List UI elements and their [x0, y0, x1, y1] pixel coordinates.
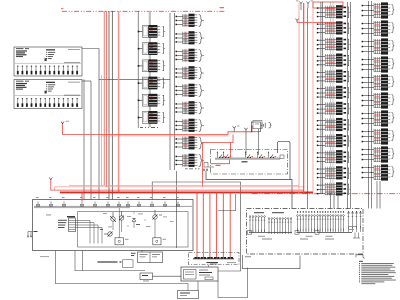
connector strip enclosure [189, 253, 240, 265]
driver module C6 [317, 86, 351, 99]
connector module box X2 [14, 80, 82, 109]
red feeder label [61, 7, 63, 10]
M1 feed [141, 251, 143, 253]
plug P2 [201, 257, 206, 258]
column B feeder bus 1 [169, 13, 171, 170]
column A feeder bus [137, 11, 139, 128]
relay module A1 [138, 25, 166, 38]
antenna T5 [61, 121, 69, 124]
lamp bus 2 [295, 231, 316, 237]
column A gray highlighted net [149, 11, 151, 127]
column B feeder bus 2 [174, 13, 176, 170]
M1 annotation [131, 253, 136, 256]
red riser right 1 [298, 3, 300, 194]
dark riser right b [312, 8, 314, 192]
driver module C1 [317, 5, 351, 18]
lamp group enclosure (dash-dot) [247, 209, 364, 255]
red drop 5 [222, 192, 224, 257]
lamp group G4 [317, 211, 345, 232]
connector module box X1 [14, 47, 82, 76]
column C feeder bus 1 [320, 2, 322, 194]
relay K1 box [251, 121, 262, 156]
red drop 6 [229, 192, 231, 257]
wire y283 [56, 251, 189, 291]
red riser 1 [103, 11, 105, 185]
red dash-dot feeder line [62, 10, 226, 12]
bus switch S2 [223, 152, 231, 159]
wire R1 to U4 [153, 275, 182, 277]
red dash-dot trunk right [252, 193, 400, 195]
column C tails [331, 181, 381, 209]
relay module A2 [138, 42, 166, 55]
wire y182 [152, 182, 240, 271]
driver module C2 [317, 21, 351, 34]
dark riser right a [306, 8, 308, 209]
fuse F6 [106, 201, 109, 206]
G4 tail [353, 233, 360, 239]
driver module D1 [362, 2, 394, 18]
relay box R1 [140, 273, 153, 281]
extra bus tap box [280, 155, 284, 158]
plug P5 [221, 257, 226, 258]
IC module B4 [176, 66, 204, 79]
IC module B1 [176, 14, 204, 27]
net stub x176.5 [176, 171, 178, 248]
U4 label [210, 264, 217, 265]
wire labels above box [36, 196, 179, 199]
IC module B5 [176, 84, 204, 97]
column B bottom continuation [185, 168, 208, 171]
bus switch S3 [245, 152, 253, 159]
driver module C9 [317, 134, 351, 147]
wire U4 down [197, 281, 199, 291]
terminal block TB [67, 216, 76, 232]
box top feed wire [34, 205, 192, 207]
X1 title text [16, 48, 29, 57]
driver module C3 [317, 37, 351, 50]
lamp group G1 [249, 216, 265, 232]
IC module B6 [176, 101, 204, 114]
group top labels [254, 212, 284, 213]
driver module D6 [362, 92, 394, 108]
antenna T8 [49, 178, 52, 181]
inter-column trunks [348, 2, 351, 209]
lamp group G3 [297, 211, 316, 232]
misc net dots [100, 213, 146, 230]
red net from T5 [63, 124, 252, 135]
plug P1 [194, 257, 199, 258]
wire chain left [75, 251, 145, 271]
wire from box X2 [82, 80, 91, 82]
module label [216, 165, 221, 166]
red drop 3 [209, 192, 211, 257]
inner partition box [78, 212, 189, 247]
formula text [98, 261, 122, 262]
IC module B7 [176, 119, 204, 132]
G4 sub-label [348, 226, 356, 230]
red trunk 4 (heavy) [60, 191, 313, 193]
driver module C12 [317, 182, 351, 195]
relay module A4 [138, 77, 166, 90]
red riser 2 [106, 11, 108, 187]
red trunk 3 [51, 180, 304, 190]
driver U3 [153, 238, 166, 245]
antenna T2 [306, 1, 313, 9]
driver module C7 [317, 102, 351, 115]
driver module D3 [362, 38, 394, 54]
fuse F8 [126, 201, 129, 206]
wire stub down from X1 junction [98, 79, 100, 199]
dark riser [111, 11, 113, 200]
red branch h [297, 22, 343, 24]
X1 pin row [15, 63, 81, 74]
wire down from X2 [90, 81, 92, 200]
transistor Q3 [153, 210, 163, 220]
plug P4 [214, 257, 219, 258]
red net label [220, 7, 225, 8]
fuse F9 [137, 201, 140, 206]
red distribution box [313, 2, 343, 8]
module inner wiring [204, 163, 214, 168]
X2 pin row [15, 96, 81, 107]
transistor Q4 [104, 232, 113, 237]
wire module to bottom-right box [206, 171, 292, 209]
antenna T6 [233, 126, 240, 132]
group captions [262, 239, 334, 240]
diode D1 [132, 218, 136, 221]
module enclosure (dash-dot) [211, 150, 288, 175]
driver module D9 [362, 146, 394, 162]
net stub x152 [151, 182, 153, 200]
red riser 5 [101, 75, 103, 185]
wire from box X1 to bus [82, 49, 170, 80]
ECU main box [33, 200, 194, 251]
transistor Q2 [119, 211, 124, 221]
driver module C11 [317, 166, 351, 179]
control unit U4 [181, 267, 218, 281]
fuse F7 [117, 201, 120, 206]
plug P6 [228, 257, 233, 258]
plug P3 [207, 257, 212, 258]
bottom box M2 [178, 291, 199, 299]
bus switch S5 [268, 152, 276, 159]
inner verticals [113, 208, 155, 238]
column A continuation marks [140, 126, 158, 129]
fuse F12 [176, 201, 179, 206]
driver module D4 [362, 56, 394, 72]
fuse F5 [93, 201, 96, 206]
red drop 4 [216, 192, 218, 257]
fuse F2 [49, 201, 52, 206]
TB wiring harness [76, 220, 103, 243]
red drop 2 [202, 192, 204, 257]
red box tail [312, 2, 314, 8]
transistor Q1 [110, 212, 116, 222]
driver U2 [115, 238, 129, 245]
column D feeder bus 1 [368, 1, 370, 209]
strip lead down [208, 265, 210, 268]
IC module B2 [176, 31, 204, 44]
note tag box [356, 255, 365, 259]
fuse F4 [80, 201, 83, 206]
lamp group G2 [268, 218, 292, 234]
red trunk 2 [55, 187, 304, 190]
column C feeder bus 2 [322, 2, 324, 194]
L-wire right [218, 268, 248, 298]
notes legend [359, 261, 396, 284]
IC module B3 [176, 49, 204, 62]
feed corner wire [218, 194, 236, 211]
driver module D5 [362, 74, 394, 90]
module internal bus bar [215, 158, 280, 160]
driver module D7 [362, 110, 394, 126]
relay module A6 [138, 111, 166, 124]
ground label [34, 231, 38, 232]
connector strip bar [193, 258, 234, 260]
red riser 3 [108, 11, 110, 200]
sub enclosure label [245, 256, 251, 257]
box top feed wire 2 [34, 207, 130, 209]
X1 legend [45, 49, 81, 63]
antenna T3 + red branch [295, 19, 298, 23]
red horizontal second [102, 135, 229, 137]
IC module B9 [176, 154, 204, 167]
wire down at x84 [83, 79, 85, 199]
red riser 4 [118, 11, 120, 192]
red drop 1 [196, 192, 198, 257]
IC module B8 [176, 136, 204, 149]
driver module C10 [317, 150, 351, 163]
strip caption [207, 262, 237, 263]
driver module D2 [362, 20, 394, 36]
ground pair [27, 232, 33, 238]
TB labels [58, 220, 67, 228]
sub box M1 [138, 252, 163, 263]
antenna T7 [244, 128, 247, 155]
relay module A5 [138, 94, 166, 107]
sub enclosure below lamp box [243, 255, 301, 269]
column C through nets [331, 2, 334, 193]
battery B1 [261, 123, 271, 128]
bus label [242, 161, 248, 162]
formula box [123, 260, 134, 268]
bus switch S4 [257, 152, 265, 159]
antenna T1 [296, 1, 303, 11]
fuse F3 [62, 201, 65, 206]
component labels in ECU box [46, 213, 174, 227]
lamp bus 1 [248, 231, 293, 237]
driver module C4 [317, 54, 351, 67]
driver module C8 [317, 118, 351, 131]
fuse F11 [163, 201, 166, 206]
bridge wire over module box [278, 141, 291, 179]
red inside module box [211, 143, 231, 164]
driver module D8 [362, 128, 394, 144]
lamp group G5 [348, 211, 362, 232]
relay module A3 [138, 59, 166, 72]
X2 legend [45, 82, 81, 96]
red branch down [203, 135, 234, 187]
left stub label [40, 255, 49, 258]
driver module C5 [317, 70, 351, 83]
red trunk 1 [69, 184, 299, 186]
fuse F10 [150, 201, 153, 206]
lamp bus 3 [315, 231, 352, 237]
column D feeder bus 2 [371, 1, 373, 209]
bus switch S1 [217, 152, 225, 159]
driver module D10 [362, 164, 394, 180]
fuse F1 [36, 201, 39, 206]
red feed into box [81, 192, 83, 201]
red riser right 2 [303, 3, 305, 194]
X2 title text [16, 81, 29, 90]
